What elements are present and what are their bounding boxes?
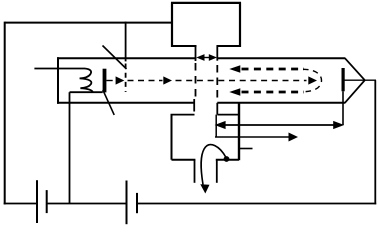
tube envelope bottom edge (right of gap)	[217, 102, 345, 104]
grid G1 (left gap grid, solid above tube)	[195, 46, 197, 62]
tube envelope bottom edge (left of gap)	[57, 102, 194, 104]
wire: top supply wire	[5, 22, 172, 24]
output stem right wall	[216, 160, 218, 183]
drift space double-headed arrow	[215, 121, 345, 129]
battery B1 long plate	[36, 180, 38, 223]
grid G2 solid continuation below tube	[216, 103, 218, 115]
returning electron path: U-turn arc	[303, 69, 322, 91]
wire: bottom wire left segment	[4, 203, 37, 205]
reference line below grid G2	[215, 115, 217, 138]
tube envelope bottom chamfer	[345, 80, 365, 103]
grid G1 solid tip below tube	[193, 99, 195, 112]
cavity resonator: top box left edge	[171, 3, 173, 48]
returning electron path: top thick dashed line	[242, 68, 305, 71]
gap width arrow (left head)	[196, 54, 217, 61]
returning electron path: bottom thick dashed line	[242, 91, 305, 94]
electron beam arrowhead 1	[116, 76, 125, 84]
heater lead (left, horizontal)	[34, 68, 85, 70]
tube envelope top edge (left of gap)	[57, 57, 197, 59]
output coupling loop curved arrow shaft	[201, 145, 226, 185]
cathode slash lead through envelope	[103, 90, 114, 115]
wire: bottom wire right segment	[138, 203, 377, 205]
battery B2 long plate	[126, 181, 128, 225]
heater bottom return line	[70, 91, 103, 93]
battery B2 short plate	[136, 193, 138, 213]
anode slash through envelope	[103, 46, 127, 70]
electron beam: solid start from cathode	[106, 80, 112, 82]
returning electron path: bottom arrowhead	[229, 88, 240, 96]
wire: left supply wire	[4, 22, 6, 205]
grid G2 (right gap grid, solid above tube)	[216, 46, 218, 61]
heater filament squiggle	[80, 69, 93, 93]
tube envelope top edge (right of gap)	[218, 57, 345, 59]
tube envelope top chamfer	[345, 58, 365, 80]
cavity resonator: bottom half left wall	[171, 115, 173, 160]
cavity resonator: bottom edge right of stem	[216, 159, 239, 161]
grid G1 dashed portion inside tube	[195, 63, 197, 100]
tube envelope left edge	[57, 57, 59, 104]
output stem left wall	[194, 160, 196, 183]
repeller electrode (thick bar)	[342, 68, 345, 91]
cathode K (thick bar)	[103, 69, 107, 93]
output coupling junction dot	[224, 156, 230, 162]
electron beam dashed line (gap to repeller space)	[176, 80, 307, 82]
cavity resonator: top box bottom-left edge	[171, 45, 197, 47]
electron turnaround single arrow	[215, 133, 298, 142]
electron beam arrowhead 3	[308, 76, 317, 84]
cavity resonator: bottom half left shelf	[171, 114, 195, 116]
grid G2 dashed portion inside tube	[216, 65, 218, 102]
wire: repeller lead	[345, 79, 377, 81]
anode grid dashed line	[125, 64, 127, 93]
stub line right of cavity wall	[239, 148, 253, 150]
battery B1 short plate	[46, 190, 48, 213]
wire: right wire to repeller	[374, 80, 376, 204]
wire: bottom wire middle segment	[47, 203, 126, 205]
anode lead from top wire	[125, 22, 127, 62]
cavity resonator: top box bottom-right edge	[217, 45, 242, 47]
electron beam dashed line (cathode to gap)	[128, 80, 163, 82]
returning electron path: top arrowhead	[229, 65, 240, 73]
electron beam arrowhead 2	[163, 76, 172, 84]
cavity resonator: bottom edge left of stem	[172, 159, 196, 161]
repeller reference line down to drift arrow	[342, 91, 344, 125]
cavity resonator: top box right edge	[239, 3, 241, 48]
cavity resonator: top box top edge	[171, 2, 241, 4]
cavity resonator: bottom half right wall	[238, 103, 240, 160]
cavity resonator: bottom half right shelf	[217, 114, 239, 116]
heater down lead to bottom wire	[69, 92, 71, 203]
RF output arrowhead (down)	[200, 184, 209, 193]
